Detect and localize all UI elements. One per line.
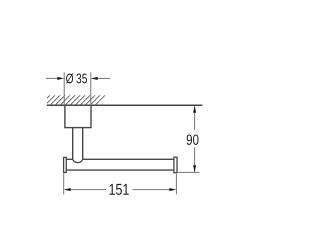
wall line (47, 104, 203, 106)
post (72, 128, 74, 160)
right end cap (174, 157, 177, 173)
left flange (64, 157, 67, 172)
wall hatching (40, 95, 105, 105)
dimension 151 (64, 174, 177, 195)
post-to-bar fillet arc (73, 159, 83, 162)
bar (roll holder rod) (66, 158, 73, 160)
dimension 90 (177, 106, 199, 172)
dimension O35 (46, 72, 110, 105)
escutcheon block (65, 105, 91, 127)
